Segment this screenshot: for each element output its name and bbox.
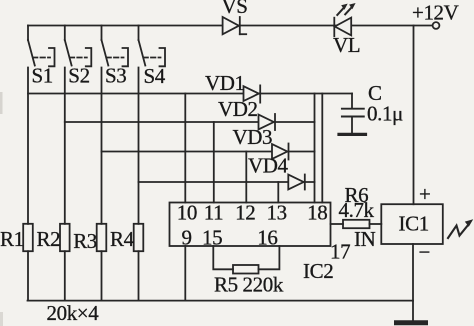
svg-text:+: + <box>419 182 430 206</box>
diode VD4 <box>288 175 305 190</box>
wire IC1 minus to ground <box>412 244 414 321</box>
wire to pin 11 <box>213 122 215 203</box>
wire branch B from S2 <box>65 121 315 123</box>
svg-text:−: − <box>419 240 430 264</box>
diode VD3 <box>272 144 289 160</box>
wire column S1 <box>27 68 29 224</box>
svg-text:9: 9 <box>182 226 192 250</box>
switch S4 <box>139 26 166 67</box>
svg-text:R2: R2 <box>37 227 61 251</box>
ground <box>397 320 426 325</box>
svg-text:13: 13 <box>267 201 287 225</box>
op-amp IC1 <box>381 204 443 244</box>
+12V terminal <box>433 22 440 29</box>
wire pin 17 <box>331 223 344 225</box>
wire R3 bottom <box>101 251 103 300</box>
svg-text:S1: S1 <box>32 64 53 88</box>
svg-text:VD4: VD4 <box>248 154 289 178</box>
wire column S2 <box>64 68 66 224</box>
svg-text:16: 16 <box>257 226 277 250</box>
scan smudge bottom left corner <box>0 312 3 326</box>
svg-text:R4: R4 <box>110 227 135 251</box>
emission arrow of IC1 <box>448 219 473 238</box>
svg-text:R3: R3 <box>73 229 97 253</box>
svg-text:18: 18 <box>307 201 327 225</box>
svg-text:20k×4: 20k×4 <box>47 301 100 325</box>
wire branch C from S3 <box>102 151 315 153</box>
svg-text:S4: S4 <box>144 64 166 88</box>
wire pin 15 down <box>213 246 233 269</box>
wire R1 bottom <box>27 251 29 300</box>
diode VD2 <box>259 114 276 130</box>
svg-text:4.7k: 4.7k <box>339 198 375 222</box>
wire to pin 18 <box>321 94 323 203</box>
IC U2 box <box>170 203 331 247</box>
resistor R4 <box>134 224 144 251</box>
wire to pin 12 <box>245 152 247 203</box>
svg-text:IN: IN <box>354 227 376 251</box>
svg-text:IC2: IC2 <box>303 259 333 283</box>
svg-text:10: 10 <box>177 201 197 225</box>
svg-text:VD2: VD2 <box>218 97 258 121</box>
svg-text:0.1μ: 0.1μ <box>367 102 403 126</box>
svg-text:+12V: +12V <box>412 1 459 25</box>
wire pin 9 to bottom bus <box>184 246 186 301</box>
wire common cathode bus <box>314 94 316 203</box>
wire R4 bottom <box>138 251 140 300</box>
svg-text:VD1: VD1 <box>205 71 245 95</box>
wire right bus to IC1 plus <box>413 26 415 205</box>
resistor R5 <box>233 265 259 274</box>
svg-text:R1: R1 <box>0 227 24 251</box>
svg-text:15: 15 <box>202 226 222 250</box>
svg-text:S3: S3 <box>105 64 126 88</box>
wire branch D from S4 <box>139 181 315 183</box>
wire to pin 10 <box>184 94 186 203</box>
wire bottom bus <box>28 300 414 302</box>
resistor R3 <box>97 224 107 251</box>
switch S3 <box>102 26 129 67</box>
resistor R6 <box>343 220 370 228</box>
svg-text:VD3: VD3 <box>233 125 273 149</box>
svg-text:12: 12 <box>235 201 255 225</box>
resistor R1 <box>23 224 33 251</box>
switch S2 <box>65 26 92 67</box>
svg-text:R5 220k: R5 220k <box>214 273 284 297</box>
wire R6 to IC1 <box>370 223 382 225</box>
switch S1 <box>28 26 55 67</box>
svg-text:VL: VL <box>333 33 360 57</box>
LED VL <box>334 3 355 36</box>
wire column S3 <box>101 68 103 224</box>
scan smudge left edge <box>0 92 3 114</box>
svg-text:S2: S2 <box>68 64 89 88</box>
wire top +12V bus <box>28 25 433 27</box>
svg-text:IC1: IC1 <box>399 212 429 236</box>
svg-text:17: 17 <box>330 240 350 264</box>
wire branch A from S1 <box>28 93 352 95</box>
svg-text:VS: VS <box>222 0 248 18</box>
capacitor C <box>339 94 366 135</box>
wire R5 to pin 16 <box>259 246 280 269</box>
wire to pin 13 <box>277 182 279 203</box>
wire R2 bottom <box>64 251 66 300</box>
resistor R2 <box>60 224 70 251</box>
diode VS <box>223 17 247 34</box>
diode VD1 <box>244 85 261 102</box>
svg-text:11: 11 <box>204 201 223 225</box>
wire column S4 <box>138 68 140 224</box>
